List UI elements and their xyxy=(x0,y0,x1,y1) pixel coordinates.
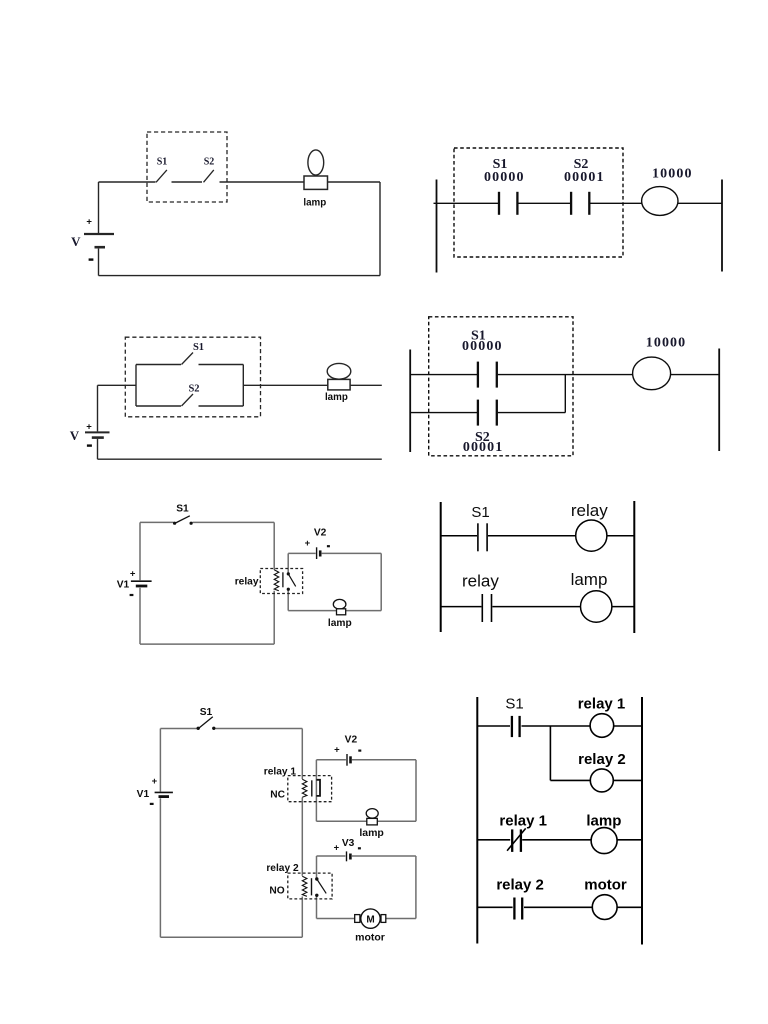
contact S1 bar1 xyxy=(477,362,479,388)
switch S1 contact dot left xyxy=(173,522,176,525)
V2 loop top wire left xyxy=(316,759,346,761)
battery V positive plate xyxy=(84,233,114,235)
svg-text:relay: relay xyxy=(571,501,608,520)
battery V2 negative plate xyxy=(319,550,322,556)
coil relay xyxy=(576,520,607,551)
ladder1 rung wire coil to right rail xyxy=(678,202,722,204)
contact S2 bar2 xyxy=(496,400,498,426)
ladder3 rung1 coil to rail xyxy=(607,535,634,537)
main loop bottom wire xyxy=(140,643,274,645)
ladder3 rung2 contact to coil xyxy=(492,606,580,608)
contact S1 bar1 xyxy=(498,192,500,215)
svg-text:lamp: lamp xyxy=(571,570,608,589)
svg-text:relay 2: relay 2 xyxy=(496,877,544,894)
contact S2 bar1 xyxy=(477,400,479,426)
svg-text:relay 1: relay 1 xyxy=(578,695,626,712)
ladder1 right rail xyxy=(721,180,723,272)
main loop left vertical lower xyxy=(139,588,141,644)
lamp base rect xyxy=(304,176,328,189)
svg-text:V3: V3 xyxy=(342,838,355,849)
ladder2 rung2 S2 to join xyxy=(498,412,566,414)
ladder3 rung1 S1 to coil xyxy=(488,535,576,537)
svg-text:S1: S1 xyxy=(176,504,189,515)
ladder4 rung4 coil to rail xyxy=(617,906,642,908)
wire battery to bottom xyxy=(97,439,99,459)
ladder1 rung wire rail to S1 contact xyxy=(434,202,499,204)
svg-text:+: + xyxy=(305,538,311,549)
V3 loop left vertical upper (to NO contact) xyxy=(316,856,318,879)
relay2 coil zigzag xyxy=(302,876,307,896)
top branch wire after S1 xyxy=(199,364,244,366)
lamp base rect xyxy=(337,609,346,615)
contact S1 bar1 xyxy=(477,523,479,551)
svg-text:S2: S2 xyxy=(188,384,199,395)
label - of V1 xyxy=(150,803,154,805)
V3 loop top wire right xyxy=(352,855,416,857)
wire lamp to open end xyxy=(350,384,382,386)
ladder3 right rail xyxy=(633,501,635,633)
relay1 core bar xyxy=(311,780,313,796)
V2 loop top wire left xyxy=(288,552,316,554)
svg-text:motor: motor xyxy=(584,877,627,894)
contact relay1 NC bar1 xyxy=(511,829,513,852)
ladder4 left rail xyxy=(476,697,478,944)
wire left vertical (battery top lead) xyxy=(98,182,100,233)
V3 loop bottom wire right xyxy=(386,918,416,920)
wire battery bottom lead xyxy=(98,249,100,276)
output coil 10000 xyxy=(642,187,678,216)
contact relay2 bar1 xyxy=(513,898,515,920)
ladder2 dashed box xyxy=(429,317,573,456)
svg-text:M: M xyxy=(366,914,374,925)
relay switch dot top xyxy=(287,572,290,575)
switch S1 contact dot right xyxy=(190,522,193,525)
ladder4 rung3 coil to rail xyxy=(617,839,642,841)
wire block to lamp xyxy=(243,384,327,386)
svg-text:00001: 00001 xyxy=(564,170,605,185)
label - of V xyxy=(89,258,94,260)
svg-text:relay 1: relay 1 xyxy=(264,767,297,778)
label - of V2 xyxy=(358,749,361,751)
battery V2 negative plate xyxy=(349,756,352,763)
ladder4 rung2 branch to coil relay2 xyxy=(550,779,590,781)
ladder4 branch vertical xyxy=(549,726,551,780)
ladder2 rung1 rail to S1 contact xyxy=(410,374,477,376)
ladder4 rung1 coil to rail xyxy=(614,725,642,727)
dashed box around parallel switches xyxy=(125,337,260,417)
relay switch blade xyxy=(288,574,295,587)
coil lamp xyxy=(581,591,612,622)
wire into parallel block xyxy=(98,384,137,386)
svg-text:relay: relay xyxy=(462,571,499,590)
main loop right vertical lower (from relay coil) xyxy=(273,591,275,644)
svg-text:S1: S1 xyxy=(193,342,204,353)
svg-text:S1: S1 xyxy=(157,157,168,168)
wire between S1 and S2 xyxy=(172,181,203,183)
lamp bulb ellipse xyxy=(308,150,324,175)
battery V2 positive plate xyxy=(346,754,348,766)
contact relay bar1 xyxy=(481,594,483,622)
relay2 NO switch blade xyxy=(317,879,326,893)
wire top segment to S1 xyxy=(99,181,156,183)
svg-text:lamp: lamp xyxy=(325,392,348,403)
wire lamp to right corner xyxy=(328,181,381,183)
relay1 NC contact bracket xyxy=(316,780,320,796)
V2 loop bottom wire left xyxy=(288,610,336,612)
coil relay 2 xyxy=(590,769,613,792)
relay dashed box xyxy=(260,569,302,594)
ladder2 parallel join vertical xyxy=(564,375,566,413)
svg-text:lamp: lamp xyxy=(359,827,384,839)
main loop left vertical upper xyxy=(139,522,141,580)
main loop top wire to S1 xyxy=(160,728,197,730)
wire bottom xyxy=(99,275,381,277)
contact S1 bar1 xyxy=(511,716,513,737)
lamp bulb ellipse xyxy=(366,809,378,819)
V2 loop left vertical upper (to relay switch) xyxy=(287,553,289,573)
V2 loop top wire right xyxy=(352,759,416,761)
svg-text:lamp: lamp xyxy=(328,618,352,629)
contact S1 bar2 xyxy=(486,523,488,551)
relay2 NO switch dot bottom xyxy=(315,894,318,897)
V2 loop right vertical xyxy=(415,760,417,822)
main loop bottom wire xyxy=(160,936,302,938)
main loop top wire after S1 xyxy=(193,521,275,523)
battery V negative plate xyxy=(95,246,106,249)
switch S2 blade xyxy=(182,394,194,406)
ladder2 rung1 coil to right rail xyxy=(671,374,720,376)
svg-text:NC: NC xyxy=(270,790,285,801)
svg-text:10000: 10000 xyxy=(646,336,687,351)
svg-text:+: + xyxy=(334,842,340,853)
svg-text:V1: V1 xyxy=(137,789,150,800)
battery V3 negative plate xyxy=(349,854,352,860)
ladder4 rung1 rail to S1 contact xyxy=(477,725,510,727)
ladder3 rung1 rail to S1 contact xyxy=(441,535,477,537)
V3 loop bottom wire left xyxy=(317,918,356,920)
battery V negative plate xyxy=(92,436,104,439)
battery V1 negative plate xyxy=(136,585,148,588)
ladder2 right rail xyxy=(718,349,720,452)
ladder4 rung4 contact to coil motor xyxy=(524,906,592,908)
battery V1 positive plate xyxy=(155,791,173,793)
ladder4 right rail xyxy=(641,697,643,945)
ladder4 rung2 coil to rail xyxy=(613,779,642,781)
V2 loop bottom wire left xyxy=(316,820,366,822)
ladder4 rung1 S1 to coil relay1 xyxy=(522,725,591,727)
label - of V3 xyxy=(358,847,361,849)
relay switch dot bottom xyxy=(287,588,290,591)
switch S1 blade xyxy=(176,516,190,523)
main loop top wire after S1 xyxy=(216,728,303,730)
ladder3 rung2 coil to rail xyxy=(612,606,634,608)
main loop left vertical lower xyxy=(159,798,161,937)
wire A lower (below relay2 coil) xyxy=(301,897,303,938)
svg-text:V: V xyxy=(71,234,81,249)
contact S1 bar2 xyxy=(518,716,520,737)
wire A upper (to relay1 coil) xyxy=(301,729,303,780)
wire A between relay boxes xyxy=(301,798,303,876)
battery V1 positive plate xyxy=(131,580,152,582)
svg-text:relay 1: relay 1 xyxy=(499,813,547,830)
label - of V1 xyxy=(130,594,134,596)
relay core bar xyxy=(282,572,284,587)
output coil 10000 xyxy=(633,357,671,390)
label - of V2 xyxy=(327,545,330,547)
wire right vertical xyxy=(379,182,381,276)
lamp base rect xyxy=(328,379,350,390)
ladder1 left rail xyxy=(436,180,438,273)
relay2 NO switch dot top xyxy=(315,877,318,880)
contact relay1 NC bar2 xyxy=(520,829,522,852)
relay2 core bar xyxy=(311,878,313,895)
svg-text:00000: 00000 xyxy=(484,170,525,185)
dashed box around S1 S2 xyxy=(147,132,227,202)
contact S2 bar2 xyxy=(588,192,590,215)
V3 loop right vertical xyxy=(415,856,417,919)
ladder3 left rail xyxy=(440,502,442,632)
V3 loop top wire left xyxy=(317,855,346,857)
coil relay 1 xyxy=(590,714,614,738)
ladder3 rung2 rail to relay contact xyxy=(441,606,482,608)
V2 loop right vertical xyxy=(380,553,382,610)
svg-text:+: + xyxy=(334,745,340,756)
contact relay bar2 xyxy=(491,594,493,622)
switch S1 blade xyxy=(156,170,167,182)
svg-text:S1: S1 xyxy=(471,504,489,521)
main loop top wire to S1 xyxy=(140,521,174,523)
V3 loop left vertical lower (from NO contact) xyxy=(316,896,318,919)
switch S1 blade xyxy=(182,353,194,365)
motor right tab xyxy=(381,915,386,923)
coil lamp xyxy=(591,828,617,854)
ladder4 rung3 rail to NC contact xyxy=(477,839,510,841)
switch S2 blade xyxy=(204,170,214,182)
svg-text:NO: NO xyxy=(269,885,284,896)
relay coil zigzag xyxy=(274,570,279,591)
contact S1 bar2 xyxy=(516,192,518,215)
V2 loop left vertical (wire B through NC contact) xyxy=(315,760,317,822)
ladder1 rung wire S1 to S2 contact xyxy=(519,202,571,204)
ladder2 rung2 rail to S2 contact xyxy=(410,412,477,414)
relay1 coil zigzag xyxy=(302,779,307,797)
ladder2 rung1 S1 to coil xyxy=(498,374,633,376)
svg-text:V2: V2 xyxy=(314,528,327,539)
svg-text:00000: 00000 xyxy=(462,339,503,354)
svg-text:V2: V2 xyxy=(345,734,358,745)
bottom branch wire after S2 xyxy=(199,405,244,407)
main loop left vertical upper xyxy=(159,729,161,792)
relay2 dashed box xyxy=(288,873,332,899)
bottom branch wire to S2 xyxy=(136,405,181,407)
wire S2 to lamp xyxy=(220,181,305,183)
battery V positive plate xyxy=(85,431,110,433)
battery V3 positive plate xyxy=(346,851,348,861)
battery V2 positive plate xyxy=(316,547,318,559)
svg-text:relay 2: relay 2 xyxy=(578,751,626,768)
switch S1 contact dot left xyxy=(197,727,200,730)
main loop right vertical upper (to relay coil) xyxy=(273,522,275,569)
lamp bulb ellipse xyxy=(327,363,351,379)
V2 loop top wire right xyxy=(322,552,382,554)
svg-text:+: + xyxy=(86,421,92,432)
ladder2 left rail xyxy=(409,350,411,453)
svg-text:relay: relay xyxy=(235,576,259,587)
svg-text:lamp: lamp xyxy=(586,813,621,830)
switch S1 blade xyxy=(199,717,213,728)
battery V1 negative plate xyxy=(159,795,170,798)
relay1 dashed box xyxy=(288,776,332,802)
contact relay2 bar2 xyxy=(521,898,523,920)
svg-text:S1: S1 xyxy=(200,707,213,718)
wire left vertical to battery xyxy=(97,385,99,431)
switch S1 contact dot right xyxy=(212,727,215,730)
lamp base rect xyxy=(367,818,378,825)
ladder4 rung3 contact to coil lamp xyxy=(522,839,591,841)
motor left tab xyxy=(355,915,360,923)
svg-text:V: V xyxy=(70,428,80,443)
svg-text:+: + xyxy=(152,776,158,787)
svg-text:00001: 00001 xyxy=(463,440,504,455)
contact S1 bar2 xyxy=(496,362,498,388)
V2 loop left vertical lower (from relay switch) xyxy=(287,589,289,610)
svg-text:+: + xyxy=(130,568,136,579)
label - of V xyxy=(87,444,92,446)
ladder4 rung4 rail to relay2 contact xyxy=(477,906,512,908)
V2 loop bottom wire right xyxy=(378,820,416,822)
NC contact slash xyxy=(507,828,526,850)
V2 loop bottom wire right xyxy=(346,610,381,612)
coil motor xyxy=(592,895,617,920)
lamp bulb ellipse xyxy=(333,599,346,609)
motor circle xyxy=(361,909,380,928)
svg-text:lamp: lamp xyxy=(303,198,326,209)
svg-text:motor: motor xyxy=(355,931,385,943)
contact S2 bar1 xyxy=(570,192,572,215)
parallel block left vertical xyxy=(135,365,137,407)
svg-text:S1: S1 xyxy=(505,696,523,713)
bottom wire xyxy=(98,458,382,460)
svg-text:+: + xyxy=(86,217,92,228)
svg-text:10000: 10000 xyxy=(652,166,693,181)
top branch wire to S1 xyxy=(136,364,181,366)
svg-text:relay 2: relay 2 xyxy=(266,863,299,874)
ladder1 rung wire S2 to coil xyxy=(590,202,642,204)
ladder1 dashed box xyxy=(454,148,623,257)
parallel block right vertical xyxy=(242,365,244,407)
svg-text:V1: V1 xyxy=(117,580,130,591)
svg-text:S2: S2 xyxy=(204,157,215,168)
